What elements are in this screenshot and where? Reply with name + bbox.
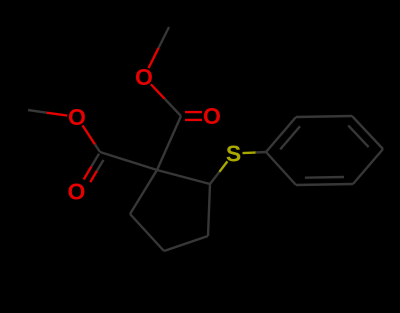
- svg-text:O: O: [135, 64, 153, 90]
- svg-text:S: S: [226, 141, 241, 167]
- svg-text:O: O: [68, 179, 86, 205]
- svg-text:O: O: [203, 103, 221, 129]
- svg-text:O: O: [68, 104, 86, 130]
